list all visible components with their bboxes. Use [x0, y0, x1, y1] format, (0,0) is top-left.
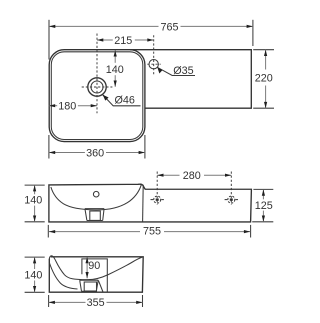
faucet centerline horizontal (dashed)	[147, 63, 160, 65]
svg-text:Ø46: Ø46	[114, 95, 134, 107]
faucet hole Ø35	[149, 59, 158, 68]
svg-text:180: 180	[58, 101, 76, 113]
inner rectangle (side)	[82, 259, 107, 292]
basin outer rim (top view)	[49, 50, 145, 142]
dimension 755	[48, 225, 250, 238]
dimension 140 (side view)	[24, 257, 44, 292]
basin inner rim (top view)	[51, 52, 143, 140]
svg-text:125: 125	[255, 200, 273, 212]
svg-text:355: 355	[87, 297, 105, 309]
bowl inner curve (front)	[51, 185, 141, 210]
dimension 215	[97, 35, 154, 47]
dimension 220	[253, 50, 274, 108]
dimension 140 (top view)	[106, 50, 124, 87]
svg-text:215: 215	[114, 35, 132, 47]
dimension 125	[252, 189, 273, 221]
svg-text:Ø35: Ø35	[173, 65, 193, 77]
svg-text:280: 280	[183, 170, 201, 182]
svg-text:140: 140	[24, 195, 42, 207]
side outline	[49, 257, 143, 292]
faucet centerline vertical (dashed)	[153, 35, 155, 74]
rear diagonal to base (side)	[98, 280, 103, 292]
drain fitting (front): outer trapezoid	[85, 209, 104, 221]
mounting hole right (front)	[225, 172, 238, 205]
outer shell curve (side)	[49, 263, 77, 290]
mounting hole left (front)	[151, 172, 164, 205]
drain hole outer circle	[88, 78, 106, 96]
dimension 180	[49, 101, 97, 113]
drain centerline vertical (dashed)	[96, 34, 98, 114]
svg-text:220: 220	[255, 72, 273, 84]
leader and label Ø46	[103, 95, 141, 107]
svg-text:140: 140	[24, 270, 42, 282]
front outline: rim, step down, counter top, right edge, bottom, left edge	[49, 184, 252, 222]
leader and label Ø35	[157, 65, 195, 77]
dimension 140 (front view)	[24, 185, 45, 222]
drain fitting (front): inner rect	[90, 211, 101, 220]
dimension 90 (side view)	[86, 257, 101, 278]
dimension 355	[49, 295, 143, 309]
overflow hole (front)	[93, 191, 99, 197]
drain fitting (side)	[80, 280, 99, 291]
dimension 765	[49, 20, 253, 60]
svg-text:755: 755	[143, 226, 161, 238]
svg-text:90: 90	[88, 260, 100, 272]
basin right silhouette line (front)	[142, 185, 145, 222]
dimension 280	[157, 170, 231, 182]
dimension 360	[49, 135, 145, 159]
drain centerline horizontal (dashed)	[82, 86, 113, 88]
rim dome and bowl inner curve (side)	[49, 256, 143, 280]
svg-text:765: 765	[160, 21, 178, 33]
counter slab outline (top view)	[130, 50, 251, 108]
drain hole inner circle Ø46	[91, 81, 103, 93]
svg-text:140: 140	[106, 64, 124, 76]
svg-text:360: 360	[86, 147, 104, 159]
